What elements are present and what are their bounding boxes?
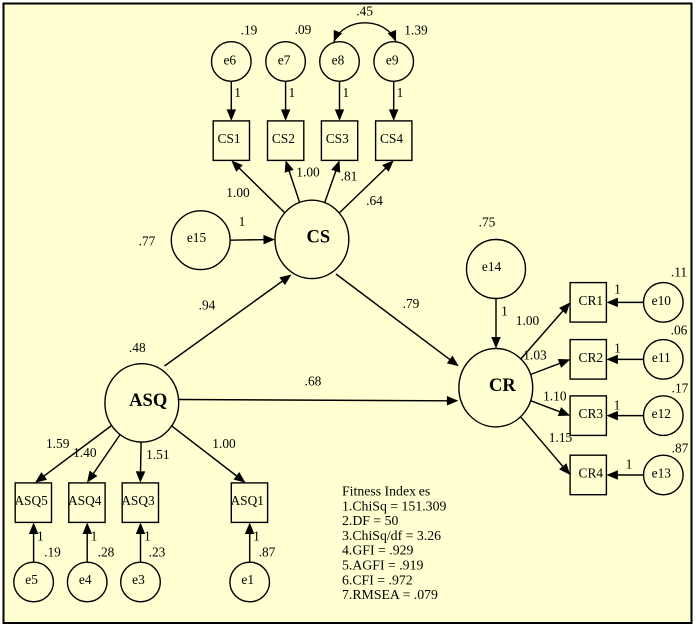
svg-text:ASQ1: ASQ1: [230, 493, 263, 508]
latent CS: [275, 200, 349, 278]
svg-text:.23: .23: [149, 545, 166, 560]
loading .81 (CS-CS3): [341, 169, 358, 184]
error term e6: [212, 42, 252, 82]
error term e11: [644, 340, 684, 380]
loading label 1 (e13): [626, 456, 633, 471]
svg-text:.64: .64: [366, 193, 383, 208]
svg-text:.94: .94: [199, 298, 216, 313]
svg-text:7.RMSEA = .079: 7.RMSEA = .079: [342, 587, 438, 602]
svg-text:1: 1: [144, 529, 151, 544]
error term e9: [374, 42, 414, 82]
label 1 (e15-CS): [239, 214, 246, 229]
loading 1.00 (ASQ-ASQ1): [212, 436, 236, 451]
path CS to CS1: [231, 160, 284, 212]
svg-text:1: 1: [501, 304, 508, 319]
error term e3: [121, 562, 161, 602]
variance .17 (e12): [672, 381, 689, 396]
svg-text:Fitness Index es: Fitness Index es: [342, 484, 430, 499]
path CS to CR: [336, 274, 459, 366]
svg-text:1.10: 1.10: [543, 389, 567, 404]
svg-text:e10: e10: [652, 293, 672, 308]
label 1 (e5): [37, 529, 44, 544]
svg-text:ASQ3: ASQ3: [121, 493, 155, 508]
svg-text:1: 1: [239, 214, 246, 229]
loading label 1 (e10): [614, 282, 621, 297]
loading 1.00 (CS-CS1): [226, 185, 250, 200]
arrow e5 to ASQ5: [29, 523, 39, 563]
svg-text:1.59: 1.59: [46, 436, 70, 451]
covariance .45 label: [356, 4, 373, 19]
indicator ASQ5: [14, 483, 51, 523]
variance .77 (e15): [139, 234, 156, 249]
coef .68 (ASQ-CR): [305, 374, 322, 389]
svg-text:e6: e6: [223, 53, 236, 68]
loading label 1 (e7): [289, 85, 296, 100]
svg-text:CS: CS: [306, 228, 330, 248]
path ASQ to CR: [179, 396, 459, 406]
indicator ASQ4: [68, 483, 105, 523]
svg-text:ASQ4: ASQ4: [68, 493, 102, 508]
arrow e3 to ASQ3: [136, 523, 145, 563]
indicator CS2: [268, 121, 304, 160]
svg-text:.87: .87: [259, 545, 276, 560]
svg-text:CR2: CR2: [579, 350, 604, 365]
path CR to CR3: [531, 401, 571, 416]
svg-text:1: 1: [37, 529, 44, 544]
variance .87 (e1): [259, 545, 276, 560]
loading label 1 (e9): [397, 85, 404, 100]
svg-text:2.DF = 50: 2.DF = 50: [342, 513, 399, 528]
svg-text:1: 1: [614, 341, 621, 356]
variance .87 (e13): [672, 441, 689, 456]
path ASQ to ASQ1: [172, 426, 246, 483]
arrow e9 to CS4: [389, 81, 399, 121]
svg-text:e15: e15: [187, 230, 207, 245]
svg-text:5.AGFI = .919: 5.AGFI = .919: [342, 558, 423, 573]
indicator CS3: [321, 121, 357, 160]
loading label 1 (e12): [614, 398, 621, 413]
error term e13: [644, 455, 684, 495]
variance .48 (ASQ): [129, 340, 146, 355]
error term e8: [320, 42, 360, 82]
error term e10: [644, 283, 684, 323]
svg-text:ASQ5: ASQ5: [14, 493, 48, 508]
path CR to CR1: [521, 302, 570, 359]
error term e4: [67, 562, 107, 602]
svg-text:CS1: CS1: [218, 131, 241, 146]
error term e12: [644, 396, 684, 436]
svg-text:CS4: CS4: [380, 131, 403, 146]
coef .79 (CS-CR): [403, 296, 420, 311]
svg-text:CR3: CR3: [579, 406, 604, 421]
svg-text:1: 1: [289, 85, 296, 100]
svg-text:1: 1: [397, 85, 404, 100]
svg-text:CR4: CR4: [579, 466, 604, 481]
arrow e4 to ASQ4: [83, 523, 93, 563]
svg-text:1: 1: [253, 529, 260, 544]
loading label 1 (e11): [614, 341, 621, 356]
svg-text:e14: e14: [482, 259, 502, 274]
svg-text:.19: .19: [44, 545, 61, 560]
svg-text:e5: e5: [25, 572, 38, 587]
svg-text:3.ChiSq/df = 3.26: 3.ChiSq/df = 3.26: [342, 528, 441, 543]
path ASQ to CS: [165, 275, 292, 367]
svg-text:1: 1: [614, 282, 621, 297]
svg-text:.45: .45: [356, 4, 373, 19]
error term e1: [230, 562, 270, 602]
path ASQ to ASQ4: [87, 435, 120, 483]
svg-text:1.03: 1.03: [523, 348, 547, 363]
loading .64 (CS-CS4): [366, 193, 383, 208]
arrow e7 to CS2: [281, 81, 291, 121]
indicator ASQ3: [121, 483, 158, 523]
loading 1.51 (ASQ-ASQ3): [146, 447, 169, 462]
indicator CR4: [570, 455, 606, 495]
svg-text:.28: .28: [98, 545, 115, 560]
indicator CR1: [570, 283, 606, 323]
svg-text:.17: .17: [672, 381, 689, 396]
svg-text:.06: .06: [671, 323, 688, 338]
svg-text:CR: CR: [489, 376, 516, 396]
loading 1.40 (ASQ-ASQ4): [73, 445, 97, 460]
svg-text:e12: e12: [652, 406, 671, 421]
svg-text:1.40: 1.40: [73, 445, 97, 460]
covariance arc e8-e9: [334, 23, 396, 42]
label 1 (e14-CR): [501, 304, 508, 319]
arrow e8 to CS3: [335, 81, 344, 121]
error term e14: [467, 240, 526, 299]
loading 1.00 (CS-CS2): [296, 165, 320, 180]
svg-text:e7: e7: [278, 53, 291, 68]
indicator ASQ1: [230, 483, 267, 523]
svg-text:e13: e13: [652, 466, 672, 481]
path CR to CR4: [521, 417, 571, 475]
loading 1.00 (CR-CR1): [516, 313, 540, 328]
svg-text:1: 1: [342, 85, 349, 100]
svg-text:1: 1: [234, 85, 241, 100]
svg-text:CR1: CR1: [579, 293, 604, 308]
svg-text:.87: .87: [672, 441, 689, 456]
svg-text:.75: .75: [479, 215, 496, 230]
svg-text:1.00: 1.00: [516, 313, 540, 328]
svg-text:1.00: 1.00: [212, 436, 236, 451]
svg-text:.79: .79: [403, 296, 420, 311]
svg-text:e1: e1: [241, 572, 254, 587]
svg-text:e9: e9: [386, 53, 399, 68]
arrow e11 to CR2: [606, 355, 643, 365]
arrow e14 to CR: [491, 299, 501, 349]
svg-text:CS2: CS2: [272, 131, 295, 146]
svg-text:1.39: 1.39: [404, 23, 428, 38]
loading label 1 (e8): [342, 85, 349, 100]
loading 1.15 (CR-CR4): [549, 430, 573, 445]
svg-text:ASQ: ASQ: [129, 391, 167, 411]
path CR to CR2: [531, 359, 571, 375]
path ASQ to ASQ5: [35, 426, 112, 483]
variance .06 (e11): [671, 323, 688, 338]
path CS to CS4: [339, 160, 394, 213]
variance .19 (e6): [241, 23, 258, 38]
variance .11 (e10): [671, 265, 687, 280]
indicator CR2: [570, 340, 606, 380]
arrow e6 to CS1: [227, 81, 237, 121]
arrow e15 to CS: [230, 235, 275, 245]
svg-text:e4: e4: [79, 572, 92, 587]
loading 1.03 (CR-CR2): [523, 348, 547, 363]
svg-text:1.ChiSq = 151.309: 1.ChiSq = 151.309: [342, 498, 446, 513]
latent CR: [459, 349, 533, 427]
svg-text:CS3: CS3: [326, 131, 349, 146]
svg-text:e3: e3: [132, 572, 145, 587]
svg-text:6.CFI = .972: 6.CFI = .972: [342, 572, 413, 587]
fitness indexes text block: [342, 484, 446, 603]
svg-text:1.15: 1.15: [549, 430, 573, 445]
loading label 1 (e6): [234, 85, 241, 100]
indicator CS1: [213, 121, 249, 160]
error term e5: [14, 562, 54, 602]
svg-text:1.51: 1.51: [146, 447, 169, 462]
arrow e12 to CR3: [606, 411, 643, 421]
variance .19 (e5): [44, 545, 61, 560]
svg-text:e11: e11: [652, 350, 671, 365]
path CS to CS3: [325, 160, 341, 202]
svg-text:1.00: 1.00: [296, 165, 320, 180]
path CS to CS2: [285, 160, 300, 202]
latent ASQ: [105, 364, 179, 442]
svg-text:.19: .19: [241, 23, 258, 38]
error term e7: [266, 42, 306, 82]
label 1 (e3): [144, 529, 151, 544]
label 1 (e4): [91, 529, 98, 544]
svg-text:.68: .68: [305, 374, 322, 389]
arrow e10 to CR1: [606, 298, 643, 308]
loading 1.10 (CR-CR3): [543, 389, 567, 404]
svg-text:.77: .77: [139, 234, 156, 249]
indicator CS4: [376, 121, 412, 160]
svg-text:1: 1: [626, 456, 633, 471]
svg-text:.81: .81: [341, 169, 358, 184]
variance .09 (e7): [295, 22, 312, 37]
path ASQ to ASQ3: [136, 442, 146, 483]
svg-text:.48: .48: [129, 340, 146, 355]
variance .23 (e3): [149, 545, 166, 560]
svg-text:1: 1: [614, 398, 621, 413]
coef .94 (ASQ-CS): [199, 298, 216, 313]
svg-text:.09: .09: [295, 22, 312, 37]
svg-text:e8: e8: [332, 53, 345, 68]
svg-text:4.GFI = .929: 4.GFI = .929: [342, 543, 414, 558]
svg-text:1.00: 1.00: [226, 185, 250, 200]
arrow e13 to CR4: [606, 470, 643, 480]
svg-text:.11: .11: [671, 265, 687, 280]
variance .75 (e14): [479, 215, 496, 230]
loading 1.59 (ASQ-ASQ5): [46, 436, 70, 451]
arrow e1 to ASQ1: [245, 523, 255, 563]
indicator CR3: [570, 396, 606, 436]
error term e15: [171, 211, 230, 270]
svg-text:1: 1: [91, 529, 98, 544]
variance .28 (e4): [98, 545, 115, 560]
variance 1.39 (e9): [404, 23, 428, 38]
label 1 (e1): [253, 529, 260, 544]
